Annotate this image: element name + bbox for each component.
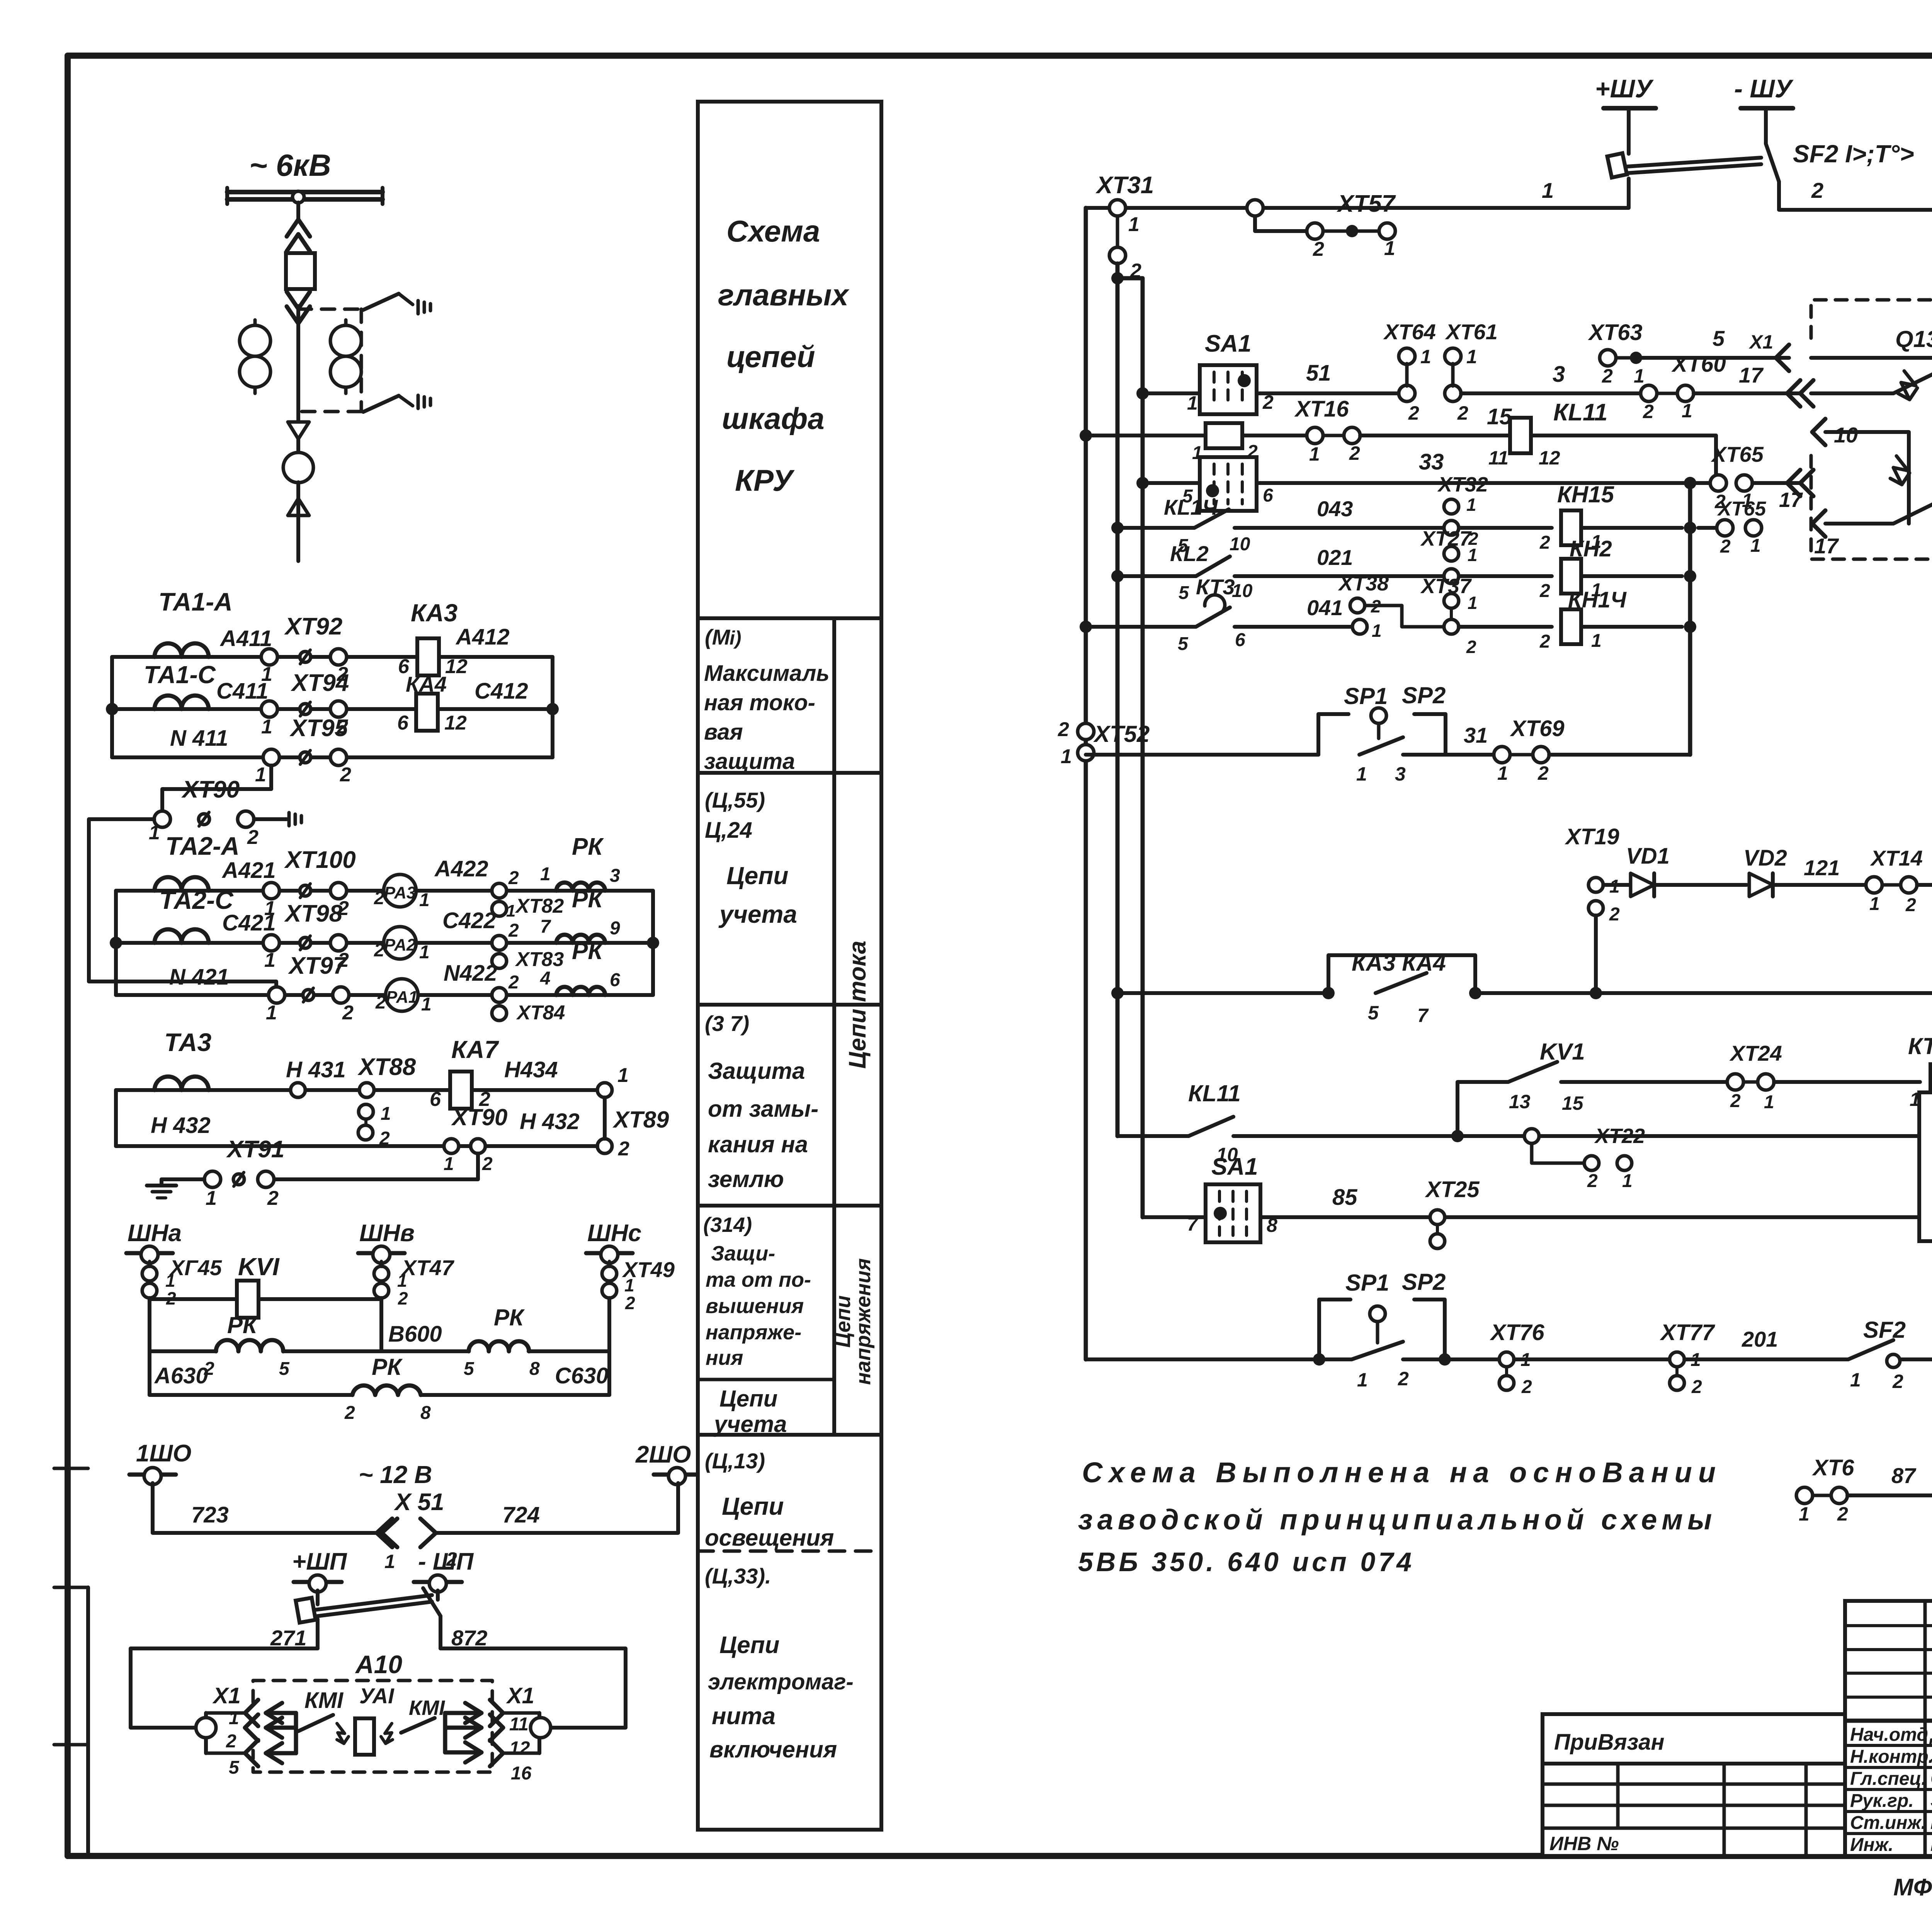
node -ShP bus stub	[414, 1548, 474, 1592]
svg-text:напряже-: напряже-	[706, 1321, 801, 1344]
svg-text:Схема: Схема	[726, 214, 820, 248]
svg-text:2: 2	[1720, 536, 1731, 557]
switch SA1 deck4	[1187, 1153, 1277, 1242]
transformer TA2-C	[143, 886, 234, 943]
wire A10 aux 10	[1812, 419, 1910, 524]
svg-text:1: 1	[1497, 762, 1508, 784]
svg-text:Рук.гр.: Рук.гр.	[1850, 1791, 1914, 1811]
svg-text:(314): (314)	[703, 1213, 752, 1237]
wire kn bus	[1684, 483, 1696, 755]
terminal XT76	[1490, 1320, 1669, 1397]
svg-text:2: 2	[618, 1138, 629, 1160]
svg-text:ХТ61: ХТ61	[1445, 320, 1498, 344]
svg-text:С421: С421	[222, 910, 276, 936]
svg-text:Х 51: Х 51	[394, 1489, 444, 1516]
svg-text:ШНв: ШНв	[359, 1220, 415, 1247]
terminal XT88	[357, 1054, 416, 1149]
relay KL11 coil	[1488, 399, 1607, 469]
wire top loop	[131, 1648, 626, 1728]
svg-text:1: 1	[1420, 346, 1431, 367]
svg-text:2: 2	[1457, 402, 1468, 424]
svg-text:включения: включения	[709, 1737, 837, 1762]
svg-text:2: 2	[1609, 904, 1620, 925]
svg-text:17: 17	[1739, 363, 1764, 387]
transformer TA1-C	[143, 661, 220, 709]
terminal XT64	[1383, 320, 1436, 424]
svg-text:1ШО: 1ШО	[136, 1440, 191, 1467]
svg-text:ХТ82: ХТ82	[515, 895, 564, 917]
svg-text:13: 13	[1509, 1091, 1531, 1112]
svg-text:ХТ14: ХТ14	[1870, 846, 1923, 870]
svg-text:ХТ19: ХТ19	[1565, 824, 1619, 849]
relay contact KL2	[1117, 541, 1253, 603]
svg-text:учета: учета	[718, 900, 797, 928]
svg-text:2: 2	[1408, 402, 1419, 424]
svg-text:ХТ47: ХТ47	[401, 1255, 455, 1280]
svg-text:KV1: KV1	[1540, 1039, 1585, 1065]
svg-text:1: 1	[255, 764, 266, 786]
terminal XT91	[204, 1136, 284, 1209]
svg-text:10: 10	[1230, 534, 1250, 555]
svg-text:ния: ния	[706, 1346, 743, 1369]
breaker aux Q12	[1812, 485, 1932, 558]
svg-text:- ШУ: - ШУ	[1734, 74, 1794, 103]
svg-text:1: 1	[384, 1551, 395, 1572]
wire 33	[1143, 449, 1722, 489]
svg-text:1: 1	[1542, 178, 1554, 202]
svg-text:1: 1	[624, 1275, 634, 1295]
terminal XT92	[261, 613, 348, 685]
ammeter PA1	[375, 961, 497, 1015]
title roles	[1850, 1723, 1932, 1855]
connector X1 left	[196, 1683, 258, 1778]
svg-text:3: 3	[1553, 362, 1565, 387]
wire C421 row	[116, 910, 653, 943]
terminal XT32	[1437, 473, 1488, 535]
legend C33 closing coil	[705, 1564, 854, 1762]
svg-text:1: 1	[444, 1154, 454, 1174]
wire 121	[1774, 856, 1866, 885]
wire H432 row	[116, 1090, 597, 1146]
svg-text:1: 1	[1622, 1171, 1633, 1191]
svg-text:Н 432: Н 432	[520, 1109, 580, 1134]
resistor RK ab	[204, 1312, 290, 1379]
svg-text:201: 201	[1742, 1327, 1778, 1351]
terminal XT22	[1524, 1124, 1645, 1191]
svg-text:КРУ: КРУ	[735, 463, 795, 497]
svg-text:заводской принципиальной схе: заводской принципиальной схемы	[1078, 1504, 1716, 1536]
svg-text:А421: А421	[221, 858, 276, 883]
switch SA1 deck3	[1182, 457, 1273, 511]
svg-text:главных: главных	[718, 278, 850, 312]
svg-text:ХТ89: ХТ89	[612, 1107, 669, 1133]
wire 31	[1464, 723, 1488, 747]
svg-text:271: 271	[270, 1626, 306, 1650]
svg-text:1: 1	[1061, 745, 1072, 768]
svg-text:3: 3	[610, 866, 620, 886]
terminal XT31	[1095, 172, 1154, 282]
legend vertical current circuits	[844, 941, 871, 1069]
svg-text:1: 1	[1356, 763, 1367, 785]
wire 87	[1847, 1463, 1932, 1495]
breaker aux Q13	[1811, 326, 1932, 400]
legend vertical voltage circuits	[832, 1258, 875, 1385]
terminal XT25	[1425, 1177, 1919, 1249]
legend metering 2	[713, 1386, 787, 1437]
resistor RK bc	[464, 1305, 540, 1379]
svg-text:(Ц,33).: (Ц,33).	[705, 1564, 771, 1588]
wire left bus VB1	[1111, 264, 1124, 1136]
svg-text:2: 2	[1643, 401, 1654, 422]
legend title	[718, 214, 850, 497]
svg-text:Прокофьева: Прокофьева	[1930, 1812, 1932, 1833]
svg-text:КL1Ч: КL1Ч	[1164, 495, 1218, 519]
wire H431 row	[116, 1057, 605, 1097]
svg-text:1: 1	[1750, 536, 1761, 556]
terminal XT38	[1338, 572, 1444, 641]
svg-text:ХТ91: ХТ91	[226, 1136, 284, 1163]
svg-text:SP1: SP1	[1344, 683, 1388, 709]
svg-text:ХТ92: ХТ92	[284, 613, 342, 640]
svg-text:7: 7	[1417, 1005, 1429, 1026]
ground switch lower	[363, 395, 430, 412]
svg-text:N 411: N 411	[170, 726, 228, 751]
svg-text:Защита: Защита	[708, 1058, 805, 1084]
switch SA1 deck1	[1187, 330, 1274, 414]
svg-text:вышения: вышения	[706, 1294, 804, 1318]
svg-text:ХТ63: ХТ63	[1588, 320, 1643, 345]
svg-text:Цепи: Цепи	[722, 1492, 784, 1520]
transformer TA2-A	[143, 832, 240, 891]
svg-text:1: 1	[1799, 1503, 1810, 1525]
breaker SF2 contact	[1848, 1317, 1932, 1392]
terminal XT47	[374, 1255, 455, 1308]
svg-text:872: 872	[451, 1626, 487, 1650]
svg-text:2: 2	[1521, 1377, 1532, 1397]
svg-text:КТЗ: КТЗ	[1908, 1033, 1932, 1059]
terminal XT90 lower	[444, 1104, 580, 1174]
wire feeder	[296, 202, 300, 421]
svg-text:12: 12	[1539, 447, 1560, 469]
svg-text:ХТ100: ХТ100	[284, 847, 356, 873]
wire into A10 17	[1694, 363, 1813, 407]
relay KA4	[397, 672, 528, 734]
svg-text:6: 6	[1263, 485, 1273, 506]
wire voltage row A630-C630	[150, 1363, 609, 1395]
svg-text:33: 33	[1419, 449, 1444, 475]
svg-text:нита: нита	[712, 1703, 776, 1730]
svg-text:1: 1	[149, 822, 160, 844]
svg-text:1: 1	[1309, 443, 1320, 465]
svg-text:8: 8	[420, 1403, 431, 1423]
svg-text:5: 5	[1713, 326, 1725, 350]
wire 85	[1143, 1185, 1430, 1217]
svg-text:ТА2-А: ТА2-А	[165, 832, 240, 860]
svg-text:2: 2	[340, 764, 351, 786]
wire left bus VB0	[1080, 208, 1092, 1359]
svg-text:освещения: освещения	[705, 1525, 834, 1551]
relay contact KV1	[1458, 1039, 1727, 1136]
terminal XT95	[255, 715, 351, 786]
svg-text:(Ц,13): (Ц,13)	[705, 1449, 765, 1473]
svg-text:5: 5	[464, 1359, 474, 1379]
svg-text:2: 2	[508, 972, 519, 993]
ground switch upper	[363, 294, 430, 314]
svg-text:SA1: SA1	[1205, 330, 1252, 357]
svg-text:1: 1	[1682, 400, 1692, 422]
wire A421 row	[116, 858, 653, 891]
svg-text:021: 021	[1317, 545, 1353, 570]
svg-text:ТА3: ТА3	[164, 1028, 211, 1056]
svg-text:6: 6	[430, 1088, 441, 1111]
svg-text:КА4: КА4	[406, 672, 447, 696]
wire 1	[1086, 178, 1629, 208]
svg-text:SP1: SP1	[1345, 1270, 1389, 1296]
svg-text:SF2: SF2	[1863, 1317, 1906, 1343]
svg-text:1: 1	[1357, 1369, 1368, 1391]
svg-text:та от по-: та от по-	[706, 1268, 811, 1291]
svg-text:6: 6	[397, 712, 409, 734]
block A10 lower dashed box	[253, 1650, 492, 1772]
svg-text:КL11: КL11	[1553, 399, 1607, 426]
legend C13 lighting	[705, 1449, 834, 1551]
wire 15	[1360, 404, 1512, 435]
svg-text:Цепи: Цепи	[719, 1632, 779, 1658]
svg-text:Н.контр.: Н.контр.	[1850, 1747, 1932, 1767]
wire A411 row	[112, 626, 553, 657]
svg-text:РК: РК	[572, 938, 604, 964]
wire A10 row5 drop	[1811, 358, 1932, 386]
svg-text:Ц,24: Ц,24	[705, 818, 752, 843]
relay KT3 coil	[1774, 1033, 1932, 1110]
svg-text:8: 8	[529, 1359, 540, 1379]
svg-text:ТА1-С: ТА1-С	[144, 661, 216, 689]
svg-text:1: 1	[1468, 593, 1478, 613]
terminal XT24	[1727, 1041, 1782, 1112]
svg-text:31: 31	[1464, 723, 1488, 747]
svg-text:2: 2	[1398, 1368, 1409, 1390]
svg-text:ХТ90: ХТ90	[181, 776, 240, 803]
diode VD1	[1603, 844, 1670, 896]
svg-text:1: 1	[1128, 213, 1139, 236]
svg-text:724: 724	[502, 1502, 540, 1527]
svg-text:ная токо-: ная токо-	[704, 690, 815, 715]
svg-text:1: 1	[1466, 346, 1477, 367]
svg-text:2: 2	[1539, 532, 1550, 553]
svg-text:ХТ88: ХТ88	[357, 1054, 416, 1080]
ground	[289, 813, 301, 826]
svg-text:2: 2	[1539, 581, 1550, 601]
legend column box	[698, 102, 881, 1830]
svg-text:2: 2	[1587, 1171, 1598, 1191]
svg-text:КМI: КМI	[304, 1688, 344, 1713]
svg-text:SP2: SP2	[1402, 1269, 1446, 1295]
electromagnet YA1	[337, 1684, 395, 1755]
terminal XT61	[1445, 320, 1498, 424]
wire N421 row	[110, 891, 659, 995]
wire 2	[1779, 178, 1932, 210]
svg-text:РА3: РА3	[384, 883, 416, 902]
svg-text:2: 2	[226, 1731, 236, 1752]
svg-text:КН15: КН15	[1557, 481, 1615, 507]
svg-text:N422: N422	[444, 961, 497, 986]
svg-text:10: 10	[1834, 423, 1858, 447]
svg-text:SA1: SA1	[1211, 1153, 1258, 1180]
terminal XT57	[1247, 191, 1396, 260]
transformer TA CT circles right	[330, 320, 361, 393]
node 1ShO bus stub	[129, 1440, 191, 1485]
svg-text:+ШУ: +ШУ	[1595, 74, 1654, 103]
svg-text:1: 1	[206, 1187, 217, 1209]
legend Z7 earth fault	[705, 1011, 818, 1192]
relay contact KL11 low	[1117, 1080, 1919, 1165]
svg-text:1: 1	[1187, 392, 1198, 414]
svg-text:85: 85	[1332, 1185, 1357, 1210]
wire 023	[1475, 955, 1932, 999]
wire 723	[153, 1461, 432, 1533]
svg-text:2: 2	[508, 868, 519, 888]
svg-text:РА1: РА1	[386, 988, 418, 1007]
wire 201	[1742, 1327, 1778, 1351]
button SP1 lower	[1086, 1270, 1409, 1391]
svg-text:12: 12	[444, 712, 467, 734]
svg-text:Бренева: Бренева	[1930, 1834, 1932, 1855]
wire voltage row B600	[150, 1298, 609, 1395]
svg-text:А10: А10	[355, 1650, 402, 1679]
svg-text:1: 1	[1634, 365, 1645, 387]
svg-text:ХТ90: ХТ90	[451, 1104, 507, 1130]
transformer TA3	[143, 1028, 220, 1090]
svg-text:15: 15	[1562, 1092, 1584, 1114]
terminal XT52	[1058, 718, 1150, 768]
svg-text:10: 10	[1232, 581, 1253, 601]
svg-text:12: 12	[509, 1738, 530, 1759]
svg-text:1: 1	[617, 1064, 629, 1087]
svg-text:N 421: N 421	[169, 964, 229, 990]
svg-text:1: 1	[419, 942, 430, 963]
node ShNv bus stub	[358, 1220, 415, 1263]
wire 043	[1235, 497, 1552, 528]
switch SA1 deck2	[1086, 423, 1307, 463]
connector X1 right	[490, 1683, 551, 1784]
svg-text:РК: РК	[372, 1354, 403, 1380]
svg-text:ХТ38: ХТ38	[1338, 572, 1389, 595]
terminal XT100	[263, 847, 356, 920]
terminal XT6	[1796, 1455, 1854, 1525]
svg-text:87: 87	[1891, 1463, 1917, 1488]
terminal XT69	[1494, 716, 1565, 784]
svg-text:Максималь: Максималь	[704, 661, 830, 686]
ground	[147, 1179, 204, 1198]
relay contact KL11	[1917, 840, 1932, 915]
svg-text:ШНс: ШНс	[587, 1220, 641, 1247]
svg-text:ХТ64: ХТ64	[1383, 320, 1436, 344]
button SP2 upper	[1402, 682, 1494, 755]
svg-text:КА7: КА7	[451, 1036, 500, 1063]
svg-text:Гл.спец.: Гл.спец.	[1850, 1769, 1927, 1789]
terminal XT60	[1641, 352, 1726, 422]
svg-text:ХТ24: ХТ24	[1729, 1041, 1782, 1065]
svg-text:ХТ65: ХТ65	[1711, 442, 1764, 466]
svg-text:Защи-: Защи-	[711, 1242, 775, 1265]
svg-text:Завьялова: Завьялова	[1930, 1745, 1932, 1767]
resistor RK phase C	[540, 886, 620, 943]
svg-text:КА3 КА4: КА3 КА4	[1352, 950, 1446, 976]
svg-text:ШНа: ШНа	[128, 1220, 182, 1247]
svg-text:ИНВ №: ИНВ №	[1549, 1833, 1619, 1854]
node -ShU bus	[1734, 74, 1794, 135]
svg-text:ХТ95: ХТ95	[289, 715, 349, 742]
svg-text:от замы-: от замы-	[708, 1096, 818, 1122]
legend C55 metering	[705, 788, 797, 928]
svg-text:(Ц,55): (Ц,55)	[705, 788, 765, 812]
contactor KM1 arrows right	[401, 1696, 481, 1762]
svg-text:1: 1	[229, 1708, 239, 1728]
svg-text:РК: РК	[572, 833, 604, 860]
relay KA7	[430, 1036, 558, 1111]
svg-text:Х1: Х1	[212, 1683, 241, 1708]
wire to XT91	[274, 1153, 478, 1179]
wire 15 to row 33	[1531, 435, 1716, 483]
relay contacts KA3 KA4	[1117, 950, 1481, 1026]
wire 5	[1636, 326, 1789, 371]
terminal XT89	[597, 1064, 669, 1160]
svg-text:1: 1	[381, 1104, 391, 1124]
svg-text:А422: А422	[434, 856, 488, 881]
svg-text:1: 1	[1384, 237, 1395, 260]
svg-text:- ШП: - ШП	[418, 1548, 474, 1575]
terminal XT27	[1420, 527, 1478, 583]
svg-text:2: 2	[1602, 365, 1613, 387]
terminal XT77	[1660, 1320, 1848, 1397]
cable head symbols	[283, 422, 313, 561]
svg-text:КМI: КМI	[409, 1696, 445, 1720]
svg-text:ХТ22: ХТ22	[1594, 1124, 1645, 1148]
svg-text:1: 1	[261, 716, 272, 738]
svg-text:(3 7): (3 7)	[705, 1011, 749, 1036]
breaker SF2 top	[1607, 135, 1914, 182]
svg-text:Н 432: Н 432	[151, 1113, 211, 1138]
svg-text:УАI: УАI	[359, 1684, 395, 1708]
svg-text:11: 11	[1488, 447, 1509, 469]
svg-text:2: 2	[1691, 1377, 1702, 1397]
resistor RK ac	[344, 1354, 431, 1423]
svg-text:2: 2	[1837, 1503, 1848, 1525]
svg-text:2: 2	[344, 1403, 355, 1423]
svg-text:2: 2	[482, 1154, 493, 1174]
terminal XT49	[602, 1257, 675, 1313]
svg-text:С630: С630	[555, 1363, 609, 1388]
svg-text:1: 1	[1591, 631, 1602, 651]
resistor RK neutral	[540, 938, 620, 995]
terminal XT97	[266, 953, 354, 1024]
svg-text:5: 5	[1368, 1002, 1379, 1024]
svg-text:~ 6кВ: ~ 6кВ	[249, 148, 331, 182]
svg-text:і): і)	[730, 627, 742, 649]
relay KL10 box	[1919, 1060, 1932, 1241]
relay KN14 coil	[1459, 587, 1682, 652]
svg-text:Сомин: Сомин	[1930, 1767, 1932, 1789]
connector X51	[377, 1489, 457, 1572]
svg-text:2: 2	[1537, 762, 1549, 784]
binding table	[1543, 1714, 1845, 1856]
svg-text:вая: вая	[704, 720, 743, 745]
svg-text:РА2: РА2	[384, 936, 416, 954]
svg-text:11: 11	[509, 1714, 529, 1735]
svg-text:В600: В600	[388, 1322, 442, 1347]
terminal XT45	[142, 1255, 222, 1308]
svg-text:SP2: SP2	[1402, 682, 1446, 708]
